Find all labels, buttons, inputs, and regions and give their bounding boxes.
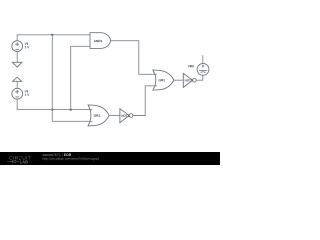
label V6 value [25, 90, 29, 92]
voltmeter VM2 [197, 64, 209, 76]
voltage source V6 [12, 88, 23, 99]
wire NOT2 output to VM2 bottom [196, 75, 203, 80]
footer url text [43, 157, 99, 160]
label NOT1 [122, 115, 130, 117]
label AND1 [94, 40, 103, 42]
label VM2 V mark [202, 65, 204, 68]
label VM2 [188, 65, 194, 67]
wire OR1 output to NOT1 input [109, 115, 120, 117]
not gate NOT1 [120, 109, 133, 123]
wire V6 to OR1 top input [17, 99, 92, 109]
wire V5 to ground [16, 52, 18, 63]
flipped ground above V6 [13, 77, 22, 81]
wire V5 top to AND1 input A [17, 35, 90, 41]
wire riser B to AND1 input B [71, 46, 90, 109]
footer bar [0, 152, 220, 165]
footer user and title text [43, 153, 63, 156]
label V5 value [25, 43, 29, 45]
wire VM2 top stub [202, 55, 204, 63]
label OR1 [94, 114, 100, 116]
label OR2 [159, 79, 165, 81]
node junction B at (70.7,109.6) [70, 109, 72, 111]
or gate OR1 [88, 105, 109, 126]
node junction A at (52.3,34.8) [51, 34, 53, 36]
wire OR2 output to NOT2 input [174, 79, 183, 81]
wire riser A to OR1 bottom input [52, 35, 92, 122]
not gate NOT2 [183, 73, 196, 87]
ground below V5 [12, 62, 22, 67]
label NOT2 [185, 79, 193, 81]
wire NOT1 output to OR2 bottom input [133, 86, 157, 116]
wire AND1 output to OR2 top input [110, 41, 157, 75]
and gate AND1 [90, 33, 110, 49]
footer CircuitLab logo [7, 156, 30, 163]
or gate OR2 [153, 70, 174, 90]
wire ground to V6 [16, 81, 18, 88]
voltage source V5 [12, 41, 23, 52]
node junction A2 at (52.3,109.6) [51, 109, 53, 111]
